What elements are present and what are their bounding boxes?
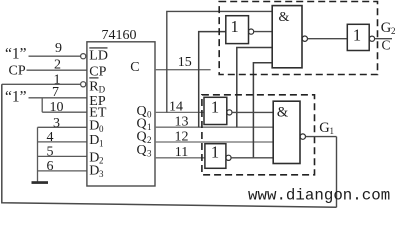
svg-text:0: 0: [99, 124, 104, 134]
svg-text:1: 1: [147, 122, 152, 132]
svg-text:9: 9: [55, 41, 62, 56]
wire G1 out: [306, 136, 337, 138]
svg-text:1: 1: [211, 98, 219, 117]
wire "1" to LD bubble: [29, 55, 81, 57]
wire Q0 (pin 14): [155, 111, 204, 113]
svg-text:C: C: [130, 60, 139, 75]
wire U5 out to bottom NAND input 1: [232, 111, 273, 113]
svg-text:2: 2: [391, 26, 396, 36]
wire U2 out to top NAND input 2: [254, 31, 273, 33]
bubble U5: [227, 110, 232, 115]
inverter U4: [347, 24, 369, 50]
svg-text:0: 0: [147, 109, 152, 119]
svg-text:1: 1: [230, 17, 238, 36]
input bubble RD: [81, 82, 86, 87]
svg-text:14: 14: [169, 100, 183, 115]
svg-text:D: D: [89, 164, 99, 179]
bubble U7: [300, 134, 305, 139]
svg-text:13: 13: [175, 114, 189, 129]
dashed box (bottom decoder): [202, 95, 315, 175]
svg-text:7: 7: [52, 85, 59, 100]
svg-text:C: C: [382, 37, 391, 52]
inverter U6: [205, 144, 226, 169]
bubble U2: [249, 29, 254, 34]
IC U1 74160 box: [87, 42, 155, 186]
svg-text:2: 2: [54, 57, 61, 72]
svg-text:1: 1: [353, 25, 361, 44]
input bubble LD: [81, 54, 86, 59]
svg-text:www.diangon.com: www.diangon.com: [248, 187, 390, 205]
svg-text:1: 1: [99, 138, 104, 148]
svg-text:CP: CP: [89, 64, 106, 79]
wire inverted Q3 up to top NAND input 4: [253, 63, 272, 158]
bubble U4: [369, 36, 374, 41]
wire G1 down: [336, 137, 338, 208]
wire U3 out to U4 in: [308, 38, 348, 40]
wire D3: [38, 170, 87, 172]
wire "1" to EP: [29, 97, 87, 99]
ground: [32, 181, 49, 184]
wire CP input: [27, 69, 87, 71]
svg-text:Q: Q: [137, 143, 147, 158]
svg-text:CP: CP: [9, 64, 26, 79]
svg-text:5: 5: [47, 144, 54, 159]
svg-text:3: 3: [53, 116, 60, 131]
NAND U7 (bottom &): [273, 101, 300, 163]
wire U6 out to bottom NAND input 4: [231, 157, 273, 159]
D bus vertical to ground: [37, 127, 39, 182]
svg-text:12: 12: [175, 130, 189, 145]
wire EP-ET branch: [41, 98, 43, 112]
svg-text:6: 6: [47, 159, 54, 174]
wire D0: [38, 126, 87, 128]
svg-text:3: 3: [99, 169, 104, 179]
svg-text:3: 3: [147, 148, 152, 158]
NAND U3 (top &): [272, 6, 302, 68]
wire Q3 (pin 11): [155, 157, 205, 159]
svg-text:2: 2: [99, 156, 104, 166]
svg-text:&: &: [277, 104, 289, 120]
svg-text:2: 2: [147, 135, 152, 145]
svg-text:LD: LD: [89, 49, 108, 64]
wire ET input: [42, 111, 87, 113]
svg-text:&: &: [279, 10, 290, 25]
svg-text:1: 1: [330, 126, 335, 136]
inverter U2: [226, 16, 249, 44]
wire feedback rail left/bottom (RD net): [2, 84, 337, 207]
svg-text:“1”: “1”: [5, 89, 27, 106]
wire C (pin 15): [155, 69, 211, 71]
bubble U6: [226, 155, 231, 160]
wire D2: [38, 155, 87, 157]
wire Q2 (pin 12): [155, 141, 273, 143]
wire Q1 (pin 13): [155, 126, 273, 128]
dashed box (top decoder): [219, 2, 377, 75]
wire Q0 feedback up to top NAND input 1: [167, 11, 272, 112]
wire Q1 up to inverter U2 input: [199, 32, 226, 128]
svg-text:D: D: [89, 119, 99, 134]
wire Q1 up to top NAND input 3: [237, 48, 272, 128]
wire D1: [38, 141, 87, 143]
svg-text:1: 1: [211, 143, 219, 162]
svg-text:4: 4: [47, 130, 54, 145]
inverter U5: [204, 97, 227, 124]
svg-text:D: D: [89, 133, 99, 148]
svg-text:74160: 74160: [102, 28, 137, 43]
bubble U3: [302, 36, 307, 41]
svg-text:“1”: “1”: [5, 46, 27, 63]
svg-text:15: 15: [178, 55, 192, 70]
svg-text:10: 10: [50, 100, 64, 115]
wire U4 out (C-bar): [375, 38, 392, 40]
svg-text:11: 11: [175, 145, 188, 160]
wire RD input from left rail: [2, 83, 81, 85]
